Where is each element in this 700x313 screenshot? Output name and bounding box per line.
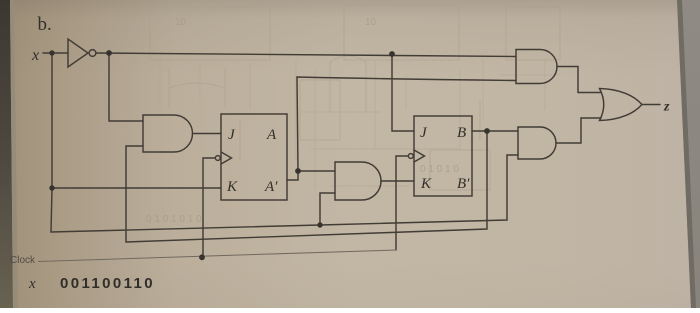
junction: node B (484, 128, 490, 134)
wire: B output to AND4 top input (472, 130, 518, 132)
junction: node x' branch to J of FF2 (389, 51, 395, 57)
wire: x' drop to AND1 top input (109, 53, 143, 121)
AND gate G3 (top right) (516, 50, 557, 84)
FF2 clock inversion bubble (408, 154, 413, 159)
junction: node A' (295, 168, 301, 174)
junction: node x at input (49, 50, 54, 55)
wire: x input stub (43, 52, 68, 54)
wire: A' output to node (287, 171, 298, 180)
FF2 edge-trigger triangle (414, 150, 425, 162)
wire: A' node to AND2 top input (298, 170, 335, 172)
wire: AND2 output to K of FF2 (381, 180, 414, 182)
wire: B feedback up to AND1 bottom input (126, 131, 487, 242)
flip-flop FF1 (A) box (221, 114, 287, 200)
wire: AND4 output to OR bottom input (556, 118, 601, 143)
junction: node x' at inverter output (106, 50, 112, 56)
wire: x vertical to K of FF1 (52, 53, 221, 188)
wire: AND3 output to OR top input (557, 67, 601, 93)
FF1 edge-trigger triangle (221, 152, 232, 164)
wire: clock to FF1 (203, 158, 215, 257)
AND gate G1 (J of FF1) (143, 115, 192, 152)
wire: branch up to AND2 bottom input (320, 193, 335, 225)
wire: z output (642, 104, 660, 106)
junction: node x feedback branch to AND G2 (317, 222, 322, 227)
wire: A' node up and across to AND3 bottom input (297, 77, 516, 171)
FF1 clock inversion bubble (215, 156, 220, 161)
OR gate G5 (600, 89, 643, 121)
wire: top x' bus from inverter to AND3 top input (96, 53, 516, 57)
flip-flop FF2 (B) box (414, 116, 472, 196)
ghost print-through shapes (150, 5, 560, 190)
junction: node x branch to K of FF1 (49, 185, 54, 190)
right page edge strip (677, 0, 700, 308)
wire: Clock distribution line (38, 250, 396, 262)
wire: clock to FF2 (396, 156, 408, 250)
AND gate G2 (K of FF2) (335, 162, 381, 200)
wire: AND1 output to J of FF1 (193, 133, 222, 135)
wire: x' drop to J of FF2 (392, 54, 414, 131)
junction: clock branch to FF1 (199, 254, 205, 260)
inverter U1 output bubble (89, 50, 96, 57)
left dark book edge strip (0, 0, 13, 308)
AND gate G4 (bottom right) (518, 127, 556, 159)
wire: x feedback bottom bus to AND2/AND4 (51, 155, 518, 232)
inverter U1 (NOT gate) triangle (68, 39, 88, 67)
